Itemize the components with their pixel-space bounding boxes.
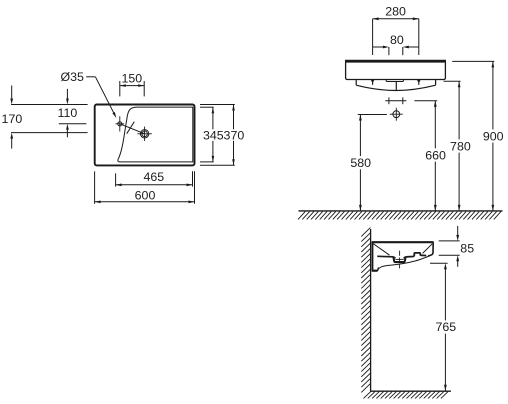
svg-text:85: 85 [460,241,474,255]
svg-text:660: 660 [425,148,446,162]
svg-text:110: 110 [58,106,78,120]
svg-text:280: 280 [385,5,406,19]
svg-text:780: 780 [450,139,471,153]
svg-text:900: 900 [483,129,504,143]
svg-text:580: 580 [350,156,371,170]
svg-text:170: 170 [2,112,23,126]
svg-text:Ø35: Ø35 [60,70,84,84]
svg-text:150: 150 [121,72,142,86]
svg-text:345: 345 [203,128,224,142]
svg-text:465: 465 [143,170,164,184]
svg-text:765: 765 [435,320,456,334]
svg-text:370: 370 [224,128,245,142]
svg-text:600: 600 [135,188,156,202]
svg-text:80: 80 [390,33,404,47]
